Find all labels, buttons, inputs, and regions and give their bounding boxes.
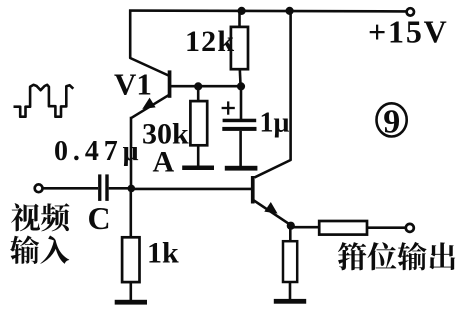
- transistor V1: [132, 70, 172, 117]
- wire: V1 emitter down to node: [130, 117, 133, 189]
- node: C / V1 emitter / 1k / V2 base junction: [128, 185, 136, 193]
- figure number 9 (circled): [377, 103, 407, 140]
- node: V2 emitter junction: [287, 222, 295, 230]
- ground under emitter resistor: [274, 299, 306, 304]
- label 视频输入 (video input): [11, 203, 70, 231]
- transistor V2: [251, 176, 290, 225]
- node: rail junction at V2 collector riser: [286, 7, 294, 15]
- ground under 1k: [115, 300, 147, 305]
- waveform symbol (video signal with sync): [14, 85, 74, 117]
- resistor R 12k: [231, 11, 248, 87]
- capacitor C (coupling 0.47μ): [98, 174, 109, 201]
- wire: emitter node to output resistor: [293, 226, 320, 229]
- label 箝位输出 (clamp output): [338, 242, 455, 271]
- node: divider/base junction at 12k bottom: [237, 82, 245, 90]
- resistor R 30k: [190, 87, 207, 167]
- +15V supply terminal: [407, 8, 414, 15]
- svg-text:A: A: [153, 146, 175, 179]
- svg-text:+15V: +15V: [368, 14, 449, 50]
- capacitor 1μ (electrolytic, + marked): [222, 87, 257, 167]
- node: 30k top junction: [194, 82, 202, 90]
- svg-text:9: 9: [383, 103, 400, 140]
- output series resistor: [319, 221, 367, 235]
- svg-text:C: C: [88, 200, 111, 236]
- wire: V1 base to divider node: [171, 85, 242, 88]
- wire: V1 collector to rail: [130, 10, 168, 76]
- svg-text:1k: 1k: [147, 237, 179, 270]
- svg-text:12k: 12k: [185, 25, 234, 58]
- input terminal: [35, 184, 43, 192]
- wire: capacitor C to emitter node: [109, 187, 132, 190]
- node: rail junction at 12k top: [238, 7, 246, 15]
- wire: +15V top rail: [129, 9, 406, 12]
- svg-text:1μ: 1μ: [260, 108, 290, 139]
- wire: input to capacitor C: [43, 187, 98, 190]
- output terminal: [406, 224, 414, 232]
- wire: V2 collector riser to rail: [255, 11, 291, 178]
- ground under 30k: [182, 166, 214, 171]
- svg-text:V1: V1: [114, 67, 152, 102]
- ground under 1μ capacitor: [225, 166, 258, 171]
- wire: node to V2 base: [131, 188, 251, 191]
- wire: output resistor to terminal: [367, 226, 405, 229]
- svg-text:0.47μ: 0.47μ: [54, 136, 139, 167]
- resistor R 1k: [122, 189, 139, 301]
- emitter resistor (V2): [283, 226, 297, 299]
